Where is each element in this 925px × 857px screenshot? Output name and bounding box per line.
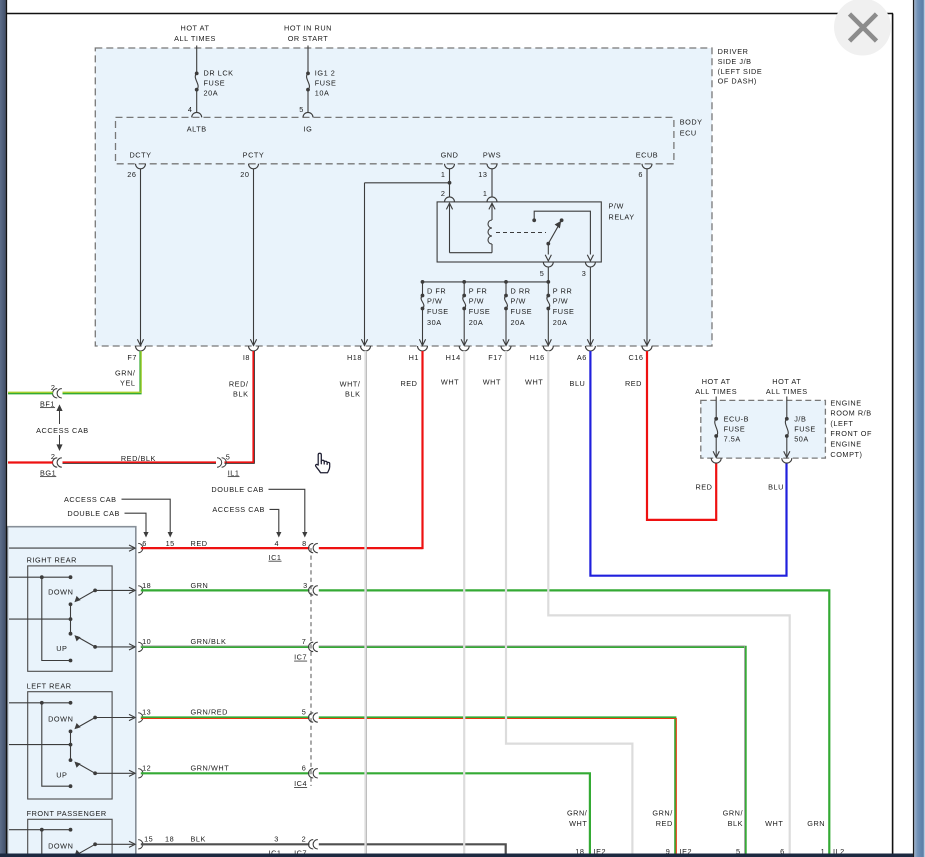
cursor hand pointer bbox=[316, 453, 330, 473]
svg-text:IG1 2: IG1 2 bbox=[315, 69, 336, 78]
svg-text:H16: H16 bbox=[530, 353, 545, 362]
svg-text:ACCESS CAB: ACCESS CAB bbox=[212, 505, 265, 514]
junction fuse bus at D FR bbox=[421, 280, 425, 284]
svg-text:3: 3 bbox=[274, 835, 279, 844]
wire GND branch bbox=[449, 169, 451, 198]
wire relay pin5 to fuse bus bbox=[547, 267, 549, 282]
connector panel edge red row bbox=[138, 543, 143, 552]
svg-text:FUSE: FUSE bbox=[511, 307, 533, 316]
svg-text:WHT: WHT bbox=[483, 378, 501, 387]
wire WHT F17 down bbox=[506, 351, 632, 857]
pin H1 bbox=[418, 346, 428, 351]
fuse J/B 50A bbox=[786, 397, 788, 419]
wire GRN/YEL F7 to BF1 bbox=[63, 351, 141, 393]
pin 13 PWS bbox=[487, 164, 497, 169]
svg-text:(LEFT: (LEFT bbox=[830, 419, 853, 428]
svg-text:ALL TIMES: ALL TIMES bbox=[695, 387, 737, 396]
svg-text:20A: 20A bbox=[204, 88, 219, 97]
fuse D FR P/W 30A bbox=[422, 282, 424, 296]
svg-text:GRN/: GRN/ bbox=[652, 809, 673, 818]
svg-text:D FR: D FR bbox=[427, 287, 446, 296]
svg-text:BF1: BF1 bbox=[40, 399, 55, 408]
svg-text:UP: UP bbox=[56, 644, 67, 653]
wire relay pin3 to A6 bbox=[589, 267, 591, 346]
svg-text:13: 13 bbox=[478, 170, 487, 179]
svg-text:18: 18 bbox=[142, 581, 151, 590]
wire BLK row bbox=[141, 843, 310, 845]
svg-text:10: 10 bbox=[142, 637, 151, 646]
wire GRN row right bbox=[319, 590, 830, 857]
svg-text:BLK: BLK bbox=[728, 819, 743, 828]
svg-text:FUSE: FUSE bbox=[427, 307, 449, 316]
junction fuse bus at P FR bbox=[462, 280, 466, 284]
wire GRN/YEL BF1 to edge bbox=[8, 392, 53, 394]
svg-text:FUSE: FUSE bbox=[315, 79, 337, 88]
svg-text:FUSE: FUSE bbox=[469, 307, 491, 316]
svg-text:DR LCK: DR LCK bbox=[204, 69, 234, 78]
junction block DRIVER SIDE J/B bbox=[95, 48, 712, 346]
connector line IC dashed bbox=[310, 548, 312, 786]
svg-text:BG1: BG1 bbox=[40, 468, 56, 477]
window scrollbar bbox=[913, 0, 915, 857]
fuse DR LCK 20A bbox=[195, 72, 199, 76]
wire GRN row bbox=[141, 589, 310, 591]
wire GRN/WHT row right bbox=[319, 773, 590, 857]
svg-text:ALL TIMES: ALL TIMES bbox=[174, 34, 216, 43]
junction fuse bus at D RR bbox=[504, 280, 508, 284]
svg-text:P/W: P/W bbox=[427, 297, 442, 306]
svg-text:5: 5 bbox=[299, 105, 304, 114]
svg-text:ECU-B: ECU-B bbox=[724, 415, 749, 424]
svg-text:ALL TIMES: ALL TIMES bbox=[766, 387, 808, 396]
frame left border bbox=[5, 0, 7, 854]
svg-text:15: 15 bbox=[166, 539, 175, 548]
svg-text:5: 5 bbox=[540, 269, 545, 278]
svg-text:OF DASH): OF DASH) bbox=[718, 77, 757, 86]
frame top border bbox=[7, 13, 893, 15]
wire B+ to DR LCK fuse bbox=[196, 46, 198, 74]
svg-text:8: 8 bbox=[302, 539, 307, 548]
svg-text:FUSE: FUSE bbox=[553, 307, 575, 316]
svg-text:C16: C16 bbox=[628, 353, 643, 362]
svg-text:GRN: GRN bbox=[807, 819, 825, 828]
pin 1 GND bbox=[445, 164, 455, 169]
svg-text:HOT AT: HOT AT bbox=[772, 377, 801, 386]
svg-text:2: 2 bbox=[302, 835, 307, 844]
svg-text:ROOM R/B: ROOM R/B bbox=[830, 409, 871, 418]
svg-text:RELAY: RELAY bbox=[609, 212, 635, 221]
pin I8 bbox=[249, 346, 259, 351]
svg-text:H14: H14 bbox=[446, 353, 461, 362]
svg-text:H18: H18 bbox=[347, 353, 362, 362]
svg-text:RED/BLK: RED/BLK bbox=[121, 454, 156, 463]
svg-text:ALTB: ALTB bbox=[187, 125, 207, 134]
switch LEFT REAR bbox=[9, 681, 143, 799]
svg-text:A6: A6 bbox=[577, 353, 587, 362]
wire RED/BLK to BG1 bbox=[63, 461, 217, 463]
window bottom status bar bbox=[0, 854, 914, 857]
svg-text:BLK: BLK bbox=[233, 389, 248, 398]
svg-text:PWS: PWS bbox=[483, 150, 501, 159]
connector IC7 bbox=[309, 642, 314, 651]
pin ECU-B fuse out bbox=[711, 458, 721, 463]
fuse P FR P/W 20A bbox=[463, 282, 465, 296]
svg-text:IL1: IL1 bbox=[228, 468, 240, 477]
svg-text:GRN/WHT: GRN/WHT bbox=[191, 764, 230, 773]
relay fixed contact bbox=[532, 218, 536, 222]
svg-text:SIDE J/B: SIDE J/B bbox=[718, 57, 752, 66]
svg-text:GRN/RED: GRN/RED bbox=[191, 708, 229, 717]
connector IC1 IC7 blk row bbox=[309, 840, 314, 849]
pin A6 bbox=[585, 346, 595, 351]
svg-text:RED/: RED/ bbox=[229, 379, 249, 388]
svg-text:BODY: BODY bbox=[680, 118, 703, 127]
svg-text:RED: RED bbox=[400, 379, 417, 388]
svg-text:UP: UP bbox=[56, 770, 67, 779]
svg-text:P RR: P RR bbox=[553, 287, 573, 296]
relay armature bbox=[546, 242, 550, 246]
wire WHT H16 down bbox=[548, 351, 789, 857]
wire GRN/RED row bbox=[141, 716, 310, 718]
connector IC7 grn row bbox=[309, 586, 314, 595]
svg-text:RED: RED bbox=[656, 819, 673, 828]
svg-text:6: 6 bbox=[142, 539, 147, 548]
switch panel MASTER SWITCH bbox=[8, 527, 136, 857]
svg-text:IC1: IC1 bbox=[269, 553, 282, 562]
svg-text:PCTY: PCTY bbox=[243, 150, 265, 159]
switch RIGHT REAR bbox=[9, 556, 143, 672]
svg-text:26: 26 bbox=[127, 170, 136, 179]
svg-text:P FR: P FR bbox=[469, 287, 488, 296]
wire ECUB to C16 bbox=[646, 169, 648, 346]
relay contact linkage dashed bbox=[496, 232, 546, 234]
fuse D RR P/W 20A bbox=[505, 282, 507, 296]
junction block ENGINE ROOM R/B bbox=[701, 400, 826, 458]
svg-text:I8: I8 bbox=[243, 353, 250, 362]
svg-text:BLU: BLU bbox=[570, 379, 586, 388]
relay NO contact bbox=[560, 218, 564, 222]
connector IC1 bbox=[309, 543, 314, 552]
svg-text:DOUBLE CAB: DOUBLE CAB bbox=[67, 509, 120, 518]
svg-text:6: 6 bbox=[638, 170, 643, 179]
connector IC4 bbox=[309, 769, 314, 778]
svg-text:7.5A: 7.5A bbox=[724, 434, 741, 443]
svg-text:HOT AT: HOT AT bbox=[702, 377, 731, 386]
svg-text:13: 13 bbox=[142, 708, 151, 717]
svg-text:D RR: D RR bbox=[511, 287, 531, 296]
svg-text:DRIVER: DRIVER bbox=[718, 47, 749, 56]
pin J/B fuse out bbox=[782, 458, 792, 463]
svg-text:WHT/: WHT/ bbox=[340, 379, 361, 388]
wire PCTY to I8 bbox=[253, 169, 255, 346]
wire GRN/BLK row right bbox=[319, 647, 746, 857]
svg-text:GRN: GRN bbox=[191, 581, 209, 590]
svg-text:15: 15 bbox=[144, 835, 153, 844]
svg-text:HOT AT: HOT AT bbox=[181, 23, 210, 32]
svg-text:ECUB: ECUB bbox=[636, 150, 658, 159]
svg-text:20: 20 bbox=[240, 170, 249, 179]
svg-text:ENGINE: ENGINE bbox=[830, 439, 861, 448]
pin 6 ECUB bbox=[642, 164, 652, 169]
svg-text:6: 6 bbox=[302, 764, 307, 773]
pin 5 relay bbox=[543, 262, 553, 267]
svg-text:18: 18 bbox=[165, 835, 174, 844]
svg-text:1: 1 bbox=[441, 170, 446, 179]
wire DCTY to F7 bbox=[140, 169, 142, 346]
wire WHT H14 down bbox=[463, 351, 465, 857]
wire RED/BLK BG1 to edge bbox=[8, 461, 53, 463]
svg-text:DOUBLE CAB: DOUBLE CAB bbox=[211, 485, 264, 494]
connector IC4 gnr row bbox=[309, 713, 314, 722]
svg-text:7: 7 bbox=[302, 637, 307, 646]
wire RED H1 vertical bbox=[421, 351, 423, 549]
svg-text:WHT: WHT bbox=[441, 378, 459, 387]
svg-text:WHT: WHT bbox=[765, 819, 783, 828]
svg-text:ENGINE: ENGINE bbox=[830, 398, 861, 407]
pin F7 bbox=[136, 346, 146, 351]
svg-text:RED: RED bbox=[191, 539, 208, 548]
svg-text:FRONT PASSENGER: FRONT PASSENGER bbox=[27, 809, 107, 818]
svg-text:COMPT): COMPT) bbox=[830, 450, 862, 459]
pin H14 bbox=[459, 346, 469, 351]
svg-text:P/W: P/W bbox=[469, 297, 484, 306]
svg-text:GRN/BLK: GRN/BLK bbox=[191, 637, 227, 646]
svg-text:P/W: P/W bbox=[511, 297, 526, 306]
wire RED row from IC1 to H1 bbox=[319, 547, 423, 549]
svg-text:GRN/: GRN/ bbox=[723, 809, 744, 818]
svg-text:FUSE: FUSE bbox=[794, 425, 816, 434]
switch FRONT PASSENGER bbox=[9, 809, 143, 857]
label ACCESS CAB link bbox=[59, 408, 61, 448]
svg-text:20A: 20A bbox=[553, 318, 568, 327]
svg-text:GRN/: GRN/ bbox=[115, 369, 136, 378]
svg-text:20A: 20A bbox=[511, 318, 526, 327]
junction fuse bus at P RR bbox=[546, 280, 550, 284]
svg-text:(LEFT SIDE: (LEFT SIDE bbox=[718, 67, 763, 76]
svg-text:2: 2 bbox=[441, 189, 446, 198]
svg-text:LEFT REAR: LEFT REAR bbox=[27, 681, 72, 690]
svg-text:DOWN: DOWN bbox=[48, 841, 73, 850]
fuse IG1 2 10A bbox=[306, 72, 310, 76]
svg-text:J/B: J/B bbox=[794, 415, 806, 424]
svg-text:10A: 10A bbox=[315, 88, 330, 97]
svg-text:GRN/: GRN/ bbox=[567, 809, 588, 818]
svg-text:FUSE: FUSE bbox=[724, 425, 746, 434]
relay P/W RELAY box bbox=[437, 202, 601, 262]
svg-text:H1: H1 bbox=[409, 353, 419, 362]
pin 26 DCTY bbox=[136, 164, 146, 169]
ecu BODY ECU bbox=[116, 117, 674, 163]
svg-text:OR START: OR START bbox=[288, 34, 329, 43]
svg-text:IC4: IC4 bbox=[294, 779, 307, 788]
svg-text:F7: F7 bbox=[127, 353, 137, 362]
svg-text:FUSE: FUSE bbox=[204, 79, 226, 88]
pin C16 bbox=[642, 346, 652, 351]
svg-text:ECU: ECU bbox=[680, 128, 697, 137]
wire fuse bus bbox=[423, 281, 549, 283]
wire RED C16 to ECU-B fuse bbox=[647, 351, 716, 520]
wire GRN/WHT row bbox=[141, 772, 310, 774]
svg-text:4: 4 bbox=[188, 105, 193, 114]
svg-text:ACCESS CAB: ACCESS CAB bbox=[36, 426, 89, 435]
frame right border bbox=[892, 14, 894, 854]
wire RED row to IC1 bbox=[141, 547, 310, 549]
svg-text:20A: 20A bbox=[469, 318, 484, 327]
svg-text:3: 3 bbox=[303, 581, 308, 590]
svg-text:4: 4 bbox=[274, 539, 279, 548]
wire BLU A6 to J/B fuse bbox=[590, 351, 786, 576]
svg-text:IC7: IC7 bbox=[294, 653, 307, 662]
svg-text:5: 5 bbox=[226, 452, 231, 461]
svg-text:DCTY: DCTY bbox=[129, 150, 151, 159]
svg-text:F17: F17 bbox=[488, 353, 502, 362]
svg-text:3: 3 bbox=[582, 269, 587, 278]
svg-text:IG: IG bbox=[304, 125, 313, 134]
svg-text:1: 1 bbox=[483, 189, 488, 198]
close button bbox=[834, 0, 891, 56]
svg-text:WHT: WHT bbox=[569, 819, 587, 828]
svg-text:12: 12 bbox=[142, 764, 151, 773]
svg-text:BLK: BLK bbox=[191, 835, 206, 844]
pin 3 relay bbox=[585, 262, 595, 267]
wire panel feed to IC1 row bbox=[9, 547, 134, 549]
svg-text:5: 5 bbox=[302, 708, 307, 717]
svg-text:BLK: BLK bbox=[345, 389, 360, 398]
svg-text:P/W: P/W bbox=[553, 297, 568, 306]
svg-text:DOWN: DOWN bbox=[48, 588, 73, 597]
svg-text:RIGHT REAR: RIGHT REAR bbox=[27, 556, 77, 565]
pin H16 bbox=[543, 346, 553, 351]
fuse ECU-B 7.5A bbox=[715, 397, 717, 419]
svg-text:RED: RED bbox=[625, 379, 642, 388]
wire relay common to pin 5 bbox=[547, 244, 549, 255]
svg-text:WHT: WHT bbox=[525, 378, 543, 387]
svg-text:ACCESS CAB: ACCESS CAB bbox=[64, 495, 117, 504]
wire WHT/BLK H18 down bbox=[364, 351, 366, 857]
relay coil bbox=[446, 203, 452, 209]
window left edge bar bbox=[0, 0, 6, 854]
svg-text:HOT IN RUN: HOT IN RUN bbox=[284, 23, 332, 32]
fuse P RR P/W 20A bbox=[547, 282, 549, 296]
svg-text:50A: 50A bbox=[794, 434, 809, 443]
wire GRN/RED row right bbox=[319, 718, 676, 857]
pin F17 bbox=[501, 346, 511, 351]
pin 20 PCTY bbox=[249, 164, 259, 169]
svg-text:BLU: BLU bbox=[768, 483, 784, 492]
pin H18 bbox=[361, 346, 371, 351]
svg-text:GND: GND bbox=[441, 150, 459, 159]
svg-text:P/W: P/W bbox=[609, 202, 624, 211]
wire BLK row right bbox=[319, 844, 506, 857]
svg-text:30A: 30A bbox=[427, 318, 442, 327]
svg-text:FRONT OF: FRONT OF bbox=[830, 429, 872, 438]
svg-text:DOWN: DOWN bbox=[48, 715, 73, 724]
svg-text:YEL: YEL bbox=[120, 379, 135, 388]
svg-text:RED: RED bbox=[695, 483, 712, 492]
wire RED/BLK I8 down bbox=[225, 351, 254, 463]
wire IG feed to IG1 2 fuse bbox=[307, 46, 309, 74]
wire GRN/BLK row bbox=[141, 646, 310, 648]
wire PWS to relay bbox=[491, 169, 493, 198]
